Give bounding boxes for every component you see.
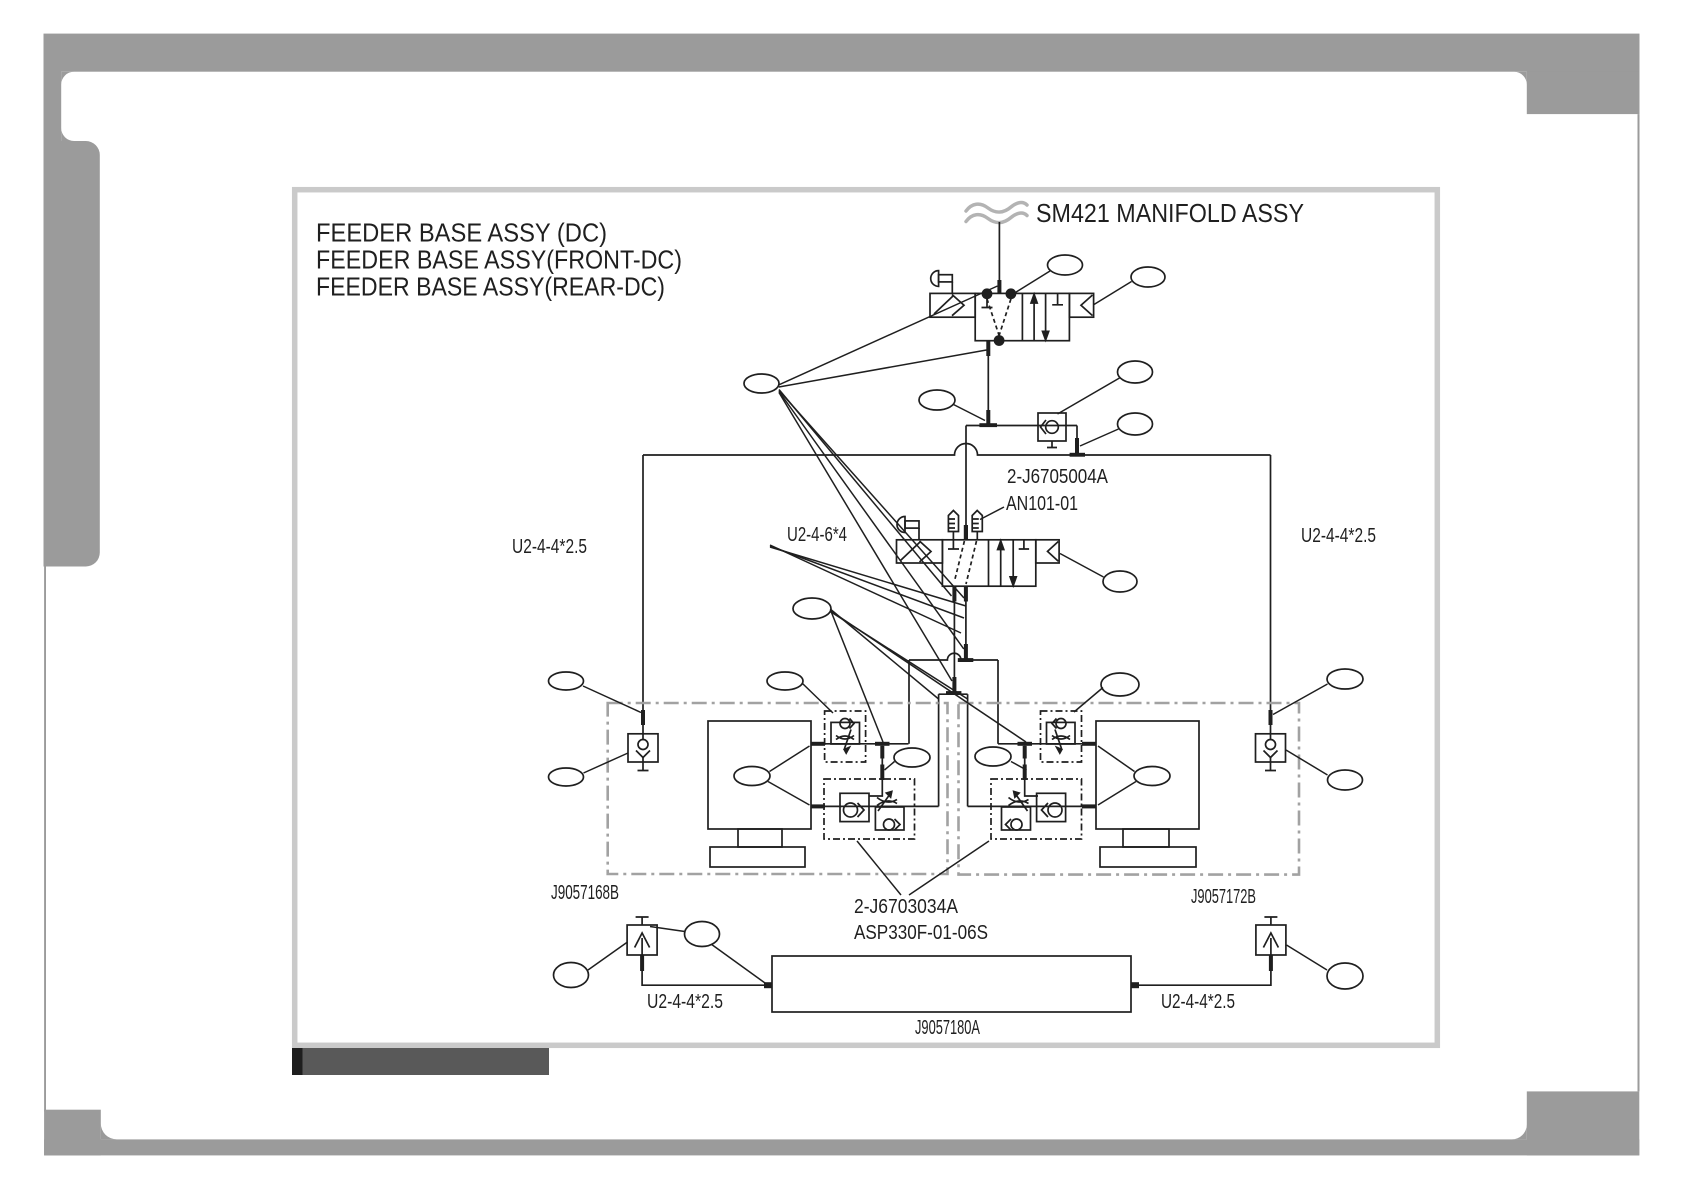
svg-text:J9057180A: J9057180A [915,1016,980,1039]
svg-text:U2-4-4*2.5: U2-4-4*2.5 [512,535,587,558]
svg-text:FEEDER BASE ASSY(REAR-DC): FEEDER BASE ASSY(REAR-DC) [316,272,665,302]
svg-text:AN101-01: AN101-01 [1006,492,1078,515]
svg-text:U2-4-4*2.5: U2-4-4*2.5 [647,990,723,1013]
svg-text:U2-4-6*4: U2-4-6*4 [787,523,847,546]
svg-text:J9057168B: J9057168B [551,881,619,904]
svg-text:U2-4-4*2.5: U2-4-4*2.5 [1161,990,1235,1013]
svg-text:2-J6705004A: 2-J6705004A [1007,465,1108,488]
svg-text:SM421 MANIFOLD ASSY: SM421 MANIFOLD ASSY [1036,198,1304,228]
svg-text:J9057172B: J9057172B [1191,885,1256,908]
svg-text:ASP330F-01-06S: ASP330F-01-06S [854,921,988,944]
svg-text:2-J6703034A: 2-J6703034A [854,895,958,918]
svg-text:FEEDER BASE ASSY (DC): FEEDER BASE ASSY (DC) [316,218,607,248]
svg-text:FEEDER BASE ASSY(FRONT-DC): FEEDER BASE ASSY(FRONT-DC) [316,245,682,275]
svg-text:U2-4-4*2.5: U2-4-4*2.5 [1301,524,1376,547]
